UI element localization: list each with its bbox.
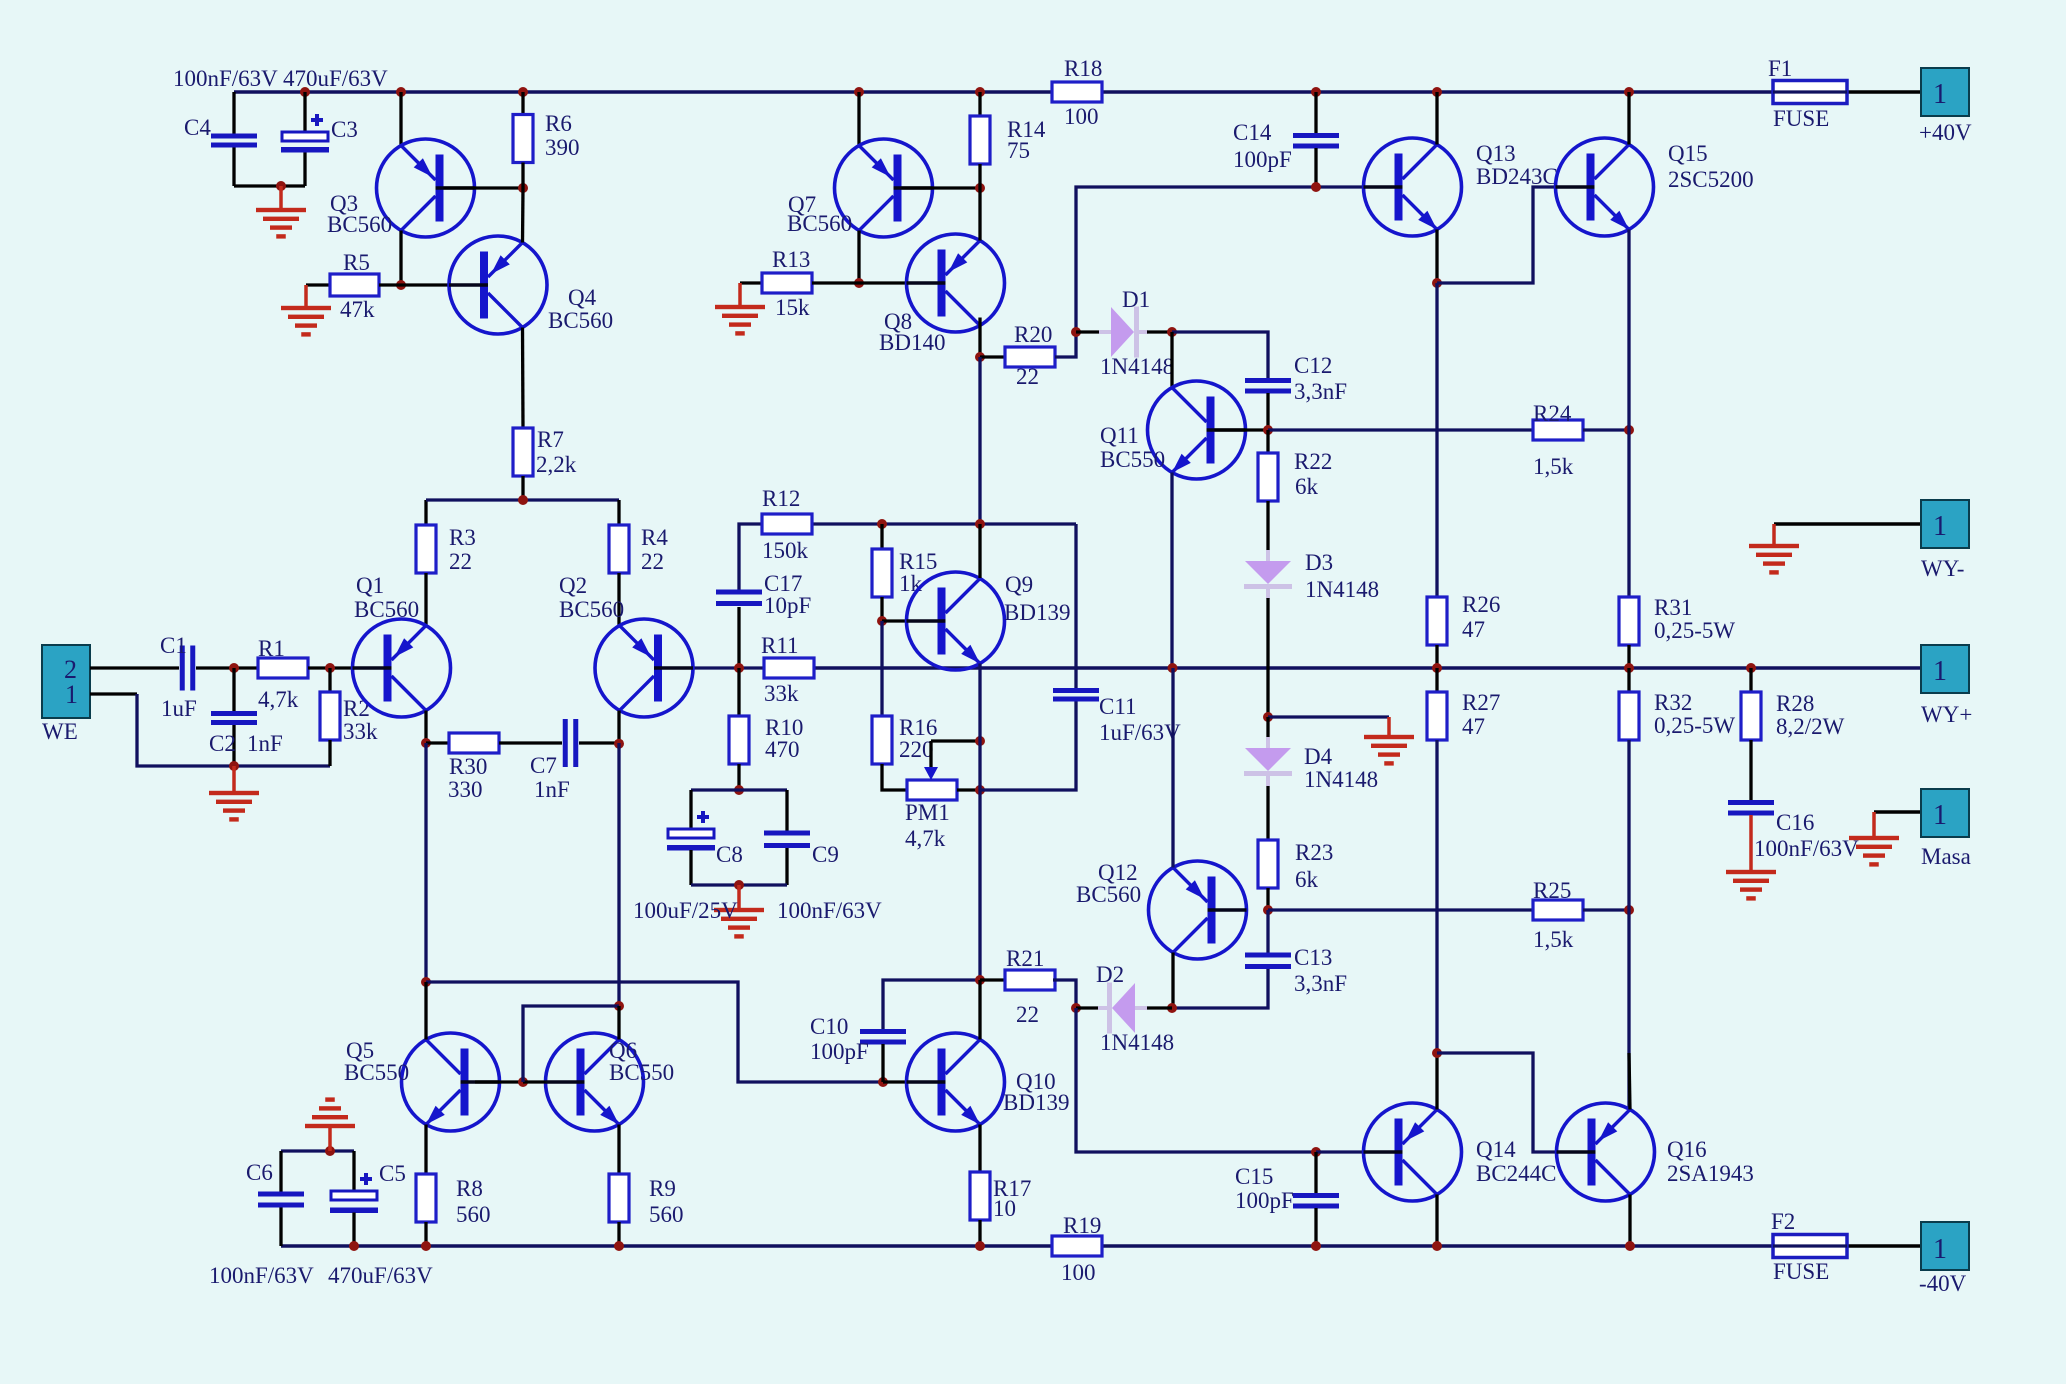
svg-text:R32: R32 (1654, 690, 1692, 715)
svg-text:R19: R19 (1063, 1213, 1101, 1238)
svg-text:220: 220 (899, 737, 934, 762)
wire Q11 emitter down to output rail (1170, 473, 1173, 669)
ground stem below C2 (232, 766, 236, 793)
svg-text:100: 100 (1061, 1260, 1096, 1285)
resistor R3 (416, 525, 436, 573)
ground below C8/C9 (714, 908, 764, 939)
diode D3 1N4148 (1244, 550, 1292, 599)
resistor R28 (1741, 692, 1761, 740)
wire C3 top stub (303, 92, 306, 132)
svg-text:R30: R30 (449, 754, 487, 779)
potentiometer PM1 body (907, 780, 957, 800)
wire C15 bottom stub (1314, 1208, 1317, 1246)
transistor Q4 (449, 236, 547, 334)
svg-text:F1: F1 (1768, 56, 1792, 81)
wire C5/C6 top tie (281, 1149, 354, 1152)
capacitor C17 (716, 590, 762, 607)
resistor R9 (609, 1174, 629, 1222)
wire C11 bottom run (980, 701, 1076, 790)
svg-text:WE: WE (42, 719, 78, 744)
transistor Q15 (1556, 138, 1654, 236)
wire R21 to D2 (1053, 980, 1076, 1008)
wire Q4 emitter stub (521, 188, 525, 243)
wire Q13 base feed riser (1076, 187, 1364, 332)
capacitor C2 (211, 711, 257, 725)
resistor R20 (1005, 347, 1055, 367)
svg-text:33k: 33k (764, 681, 799, 706)
transistor Q12 (1149, 861, 1247, 959)
svg-text:1: 1 (1933, 656, 1947, 687)
wire R12 row (812, 522, 1076, 525)
svg-text:C10: C10 (810, 1014, 848, 1039)
wire C9 top stub (785, 790, 788, 831)
wire C8 top stub (689, 790, 692, 829)
wire Q1 collector down to Q5 (424, 743, 427, 982)
transistor Q5 (402, 1033, 500, 1131)
transistor Q1 (353, 619, 451, 717)
resistor R23 (1258, 840, 1278, 888)
svg-text:Q2: Q2 (559, 573, 587, 598)
wire R31 bottom stub (1627, 645, 1630, 668)
wire Q2 collector stub (617, 711, 620, 744)
wire Q9 base lead (882, 619, 907, 622)
node C5 rail junction (349, 1241, 359, 1251)
capacitor C9 (764, 831, 810, 849)
svg-text:Q11: Q11 (1100, 423, 1139, 448)
connector Masa terminal (1921, 789, 1969, 837)
wire base tie to Q6 collector (523, 1006, 619, 1082)
svg-text:FUSE: FUSE (1773, 1259, 1829, 1284)
ground stem below C3/C4 (279, 186, 283, 210)
resistor R15 (872, 549, 892, 597)
node D2 cathode junction (1167, 1003, 1177, 1013)
wire R3 to Q1 emitter (424, 573, 427, 626)
node C8/C9 top junction (734, 785, 744, 795)
svg-text:BC560: BC560 (354, 597, 419, 622)
transistor Q11 (1148, 381, 1246, 479)
resistor R31 (1619, 597, 1639, 645)
capacitor C14 (1293, 133, 1339, 149)
wire C2 to ground run (232, 725, 235, 766)
svg-text:Q15: Q15 (1668, 141, 1708, 166)
wire C9 bottom stub (785, 848, 788, 885)
wire C14 bottom stub (1314, 148, 1317, 187)
wire D2 cathode stub (1147, 1006, 1172, 1009)
svg-text:3,3nF: 3,3nF (1294, 971, 1347, 996)
ground stem above C5/C6 (328, 1127, 332, 1152)
wire R28 to C16 (1749, 740, 1752, 800)
wire C13 to D2 cathode (1172, 969, 1268, 1008)
svg-text:560: 560 (456, 1202, 491, 1227)
connector +40V terminal (1921, 68, 1969, 116)
wire Q8 emitter stub (978, 188, 981, 241)
node D1 anode junction (1071, 327, 1081, 337)
wire Q13 emitter column (1435, 283, 1438, 597)
svg-text:R26: R26 (1462, 592, 1500, 617)
node Q7 emitter rail junction (854, 87, 864, 97)
svg-text:Q1: Q1 (356, 573, 384, 598)
transistor Q14 (1364, 1103, 1462, 1201)
svg-text:1,5k: 1,5k (1533, 927, 1574, 952)
svg-text:33k: 33k (343, 719, 378, 744)
svg-text:6k: 6k (1295, 867, 1319, 892)
node R8 rail junction (421, 1241, 431, 1251)
wire R17 bottom stub (978, 1220, 981, 1246)
svg-text:C2: C2 (209, 731, 236, 756)
node C8/C9 ground junction (734, 880, 744, 890)
svg-text:22: 22 (1016, 364, 1039, 389)
node C3/C4 ground junction (276, 181, 286, 191)
wire Q6 emitter stub (617, 1125, 620, 1175)
wire Q16 collector stub (1628, 1195, 1631, 1247)
wire ground tee (1268, 715, 1389, 718)
wire R15 to Q9 base (880, 597, 883, 621)
resistor R25 (1533, 900, 1583, 920)
svg-text:WY+: WY+ (1921, 702, 1972, 727)
wire Q13 emitter to Q15 base (1437, 187, 1556, 283)
wire Q3 collector stub (399, 231, 402, 286)
svg-text:C3: C3 (331, 117, 358, 142)
svg-text:F2: F2 (1771, 1209, 1795, 1234)
wire C12 bottom stub (1266, 393, 1269, 430)
wire Q3 base to R6 (444, 186, 524, 189)
svg-text:R13: R13 (772, 247, 810, 272)
svg-text:D3: D3 (1305, 550, 1333, 575)
node C5/C6 ground junction (325, 1146, 335, 1156)
wire R3 top stub (424, 500, 427, 525)
node Q1/Q5 collector junction (421, 977, 431, 987)
svg-text:Q14: Q14 (1476, 1137, 1516, 1162)
node PM1 wiper junction (975, 736, 985, 746)
wire PM1 wiper to Q9 emitter line (931, 739, 980, 742)
wire R10 top stub (737, 668, 740, 716)
node C7/Q2 junction (614, 739, 624, 749)
wire R30 to C7 (499, 741, 562, 744)
resistor R7 (513, 428, 533, 476)
node Q15 collector rail junction (1624, 87, 1634, 97)
connector WY+ terminal (1921, 645, 1969, 693)
svg-text:0,25-5W: 0,25-5W (1654, 618, 1735, 643)
wire Q2 base to R11 (693, 666, 764, 669)
ground stem below R13 (738, 283, 742, 307)
wire Q13 emitter stub (1435, 230, 1438, 284)
svg-text:R18: R18 (1064, 56, 1102, 81)
svg-text:1: 1 (1933, 511, 1947, 542)
wire +40V rail right of R18 (1102, 90, 1773, 93)
svg-text:C12: C12 (1294, 353, 1332, 378)
ground stem of Masa (1872, 812, 1876, 838)
node C1/C2 junction (229, 663, 239, 673)
svg-text:15k: 15k (775, 295, 810, 320)
capacitor C6 (258, 1192, 304, 1208)
node C3 top rail junction (300, 87, 310, 97)
svg-text:+40V: +40V (1919, 120, 1972, 145)
wire -40V bottom rail (281, 1244, 1052, 1247)
svg-text:BC560: BC560 (1076, 882, 1141, 907)
wire Q7 collector stub (857, 231, 860, 284)
svg-text:47: 47 (1462, 714, 1485, 739)
wire Q15 emitter column (1627, 430, 1630, 597)
node R21/C10/Q10 junction (975, 975, 985, 985)
wire Q8 collector stub (978, 318, 981, 358)
wire R4 top stub (617, 500, 620, 525)
wire Q7 emitter stub (857, 92, 860, 146)
svg-text:1N4148: 1N4148 (1304, 767, 1378, 792)
diode D1 1N4148 (1099, 307, 1148, 358)
resistor R8 (416, 1174, 436, 1222)
transistor Q2 (595, 619, 693, 717)
wire R15 top stub (880, 524, 883, 549)
svg-text:22: 22 (449, 549, 472, 574)
wire Q10 base lead (883, 1080, 907, 1083)
node C14/Q13 base junction (1311, 182, 1321, 192)
wire R24 to Q15 emitter line (1583, 428, 1629, 431)
svg-text:4,7k: 4,7k (258, 687, 299, 712)
svg-text:1: 1 (1933, 79, 1947, 110)
wire R23 junction to C13 (1266, 910, 1269, 954)
wire R25 junction to Q16 emitter (1627, 910, 1630, 1110)
resistor R14 (970, 116, 990, 164)
wire C8/C9 bottom tie (691, 883, 787, 886)
wire C4 top stub (232, 92, 235, 134)
capacitor C5 polarized (330, 1173, 378, 1213)
node R14/Q7/Q8 junction (975, 183, 985, 193)
wire fuse F1 to +40V terminal (1847, 90, 1921, 93)
ground below R13 (715, 305, 765, 336)
node R9 rail junction (614, 1241, 624, 1251)
svg-text:R8: R8 (456, 1176, 483, 1201)
svg-text:100nF/63V: 100nF/63V (209, 1263, 314, 1288)
svg-text:Q16: Q16 (1667, 1137, 1707, 1162)
wire Q10 emitter stub (978, 1125, 981, 1173)
svg-text:C11: C11 (1099, 694, 1137, 719)
node Q3 emitter rail junction (396, 87, 406, 97)
svg-text:100nF/63V: 100nF/63V (777, 898, 882, 923)
fuse F1 (1773, 81, 1847, 104)
wire Q12 emitter up to output rail (1171, 668, 1174, 868)
resistor R27 (1427, 692, 1447, 740)
wire R32 top stub (1627, 668, 1630, 692)
wire Q11 collector stub (1170, 332, 1173, 388)
capacitor C11 (1053, 688, 1099, 702)
wire Masa terminal (1874, 810, 1921, 813)
svg-text:C7: C7 (530, 753, 557, 778)
svg-text:R4: R4 (641, 525, 668, 550)
resistor R16 (872, 716, 892, 764)
svg-text:C6: C6 (246, 1160, 273, 1185)
svg-text:1k: 1k (899, 571, 923, 596)
wire Q6 collector stub (617, 1006, 620, 1040)
wire R12 left elbow to C17 (739, 524, 762, 591)
wire tee to D4 (1266, 717, 1269, 738)
svg-text:470: 470 (765, 737, 800, 762)
wire lower feedback run (426, 982, 883, 1082)
svg-text:Q4: Q4 (568, 285, 597, 310)
wire Q14 base lead wire (1316, 1150, 1364, 1153)
node Q11/Q12 emitter rail junction (1168, 663, 1178, 673)
wire D1 anode stub (1076, 330, 1100, 333)
svg-text:R3: R3 (449, 525, 476, 550)
capacitor C1 (180, 646, 196, 691)
wire C3 bottom stub (303, 153, 306, 187)
svg-text:2SA1943: 2SA1943 (1667, 1161, 1754, 1186)
svg-text:6k: 6k (1295, 474, 1319, 499)
svg-text:D2: D2 (1096, 962, 1124, 987)
node D2 anode junction (1071, 1003, 1081, 1013)
svg-text:R7: R7 (537, 427, 564, 452)
node R7/R3/R4 junction (518, 495, 528, 505)
ground below C16 (1726, 870, 1776, 901)
ground below WY- wire (1749, 544, 1799, 575)
svg-text:2,2k: 2,2k (536, 452, 577, 477)
diode D4 1N4148 (1244, 737, 1292, 786)
capacitor C12 (1245, 378, 1291, 394)
wire R14 top stub (978, 92, 981, 116)
svg-text:1uF/63V: 1uF/63V (1099, 720, 1181, 745)
capacitor C4 (211, 134, 257, 148)
wire C15 top stub (1314, 1152, 1317, 1193)
svg-text:0,25-5W: 0,25-5W (1654, 713, 1735, 738)
wire C5 bottom stub (352, 1213, 355, 1247)
wire R16 top run (880, 621, 883, 716)
node Q14 emitter junction (1432, 1048, 1442, 1058)
node R23/Q12 base junction (1263, 905, 1273, 915)
wire R5 to Q4 base (379, 283, 449, 286)
wire R32 to R25 junction (1627, 740, 1630, 910)
node R25/Q16 junction (1624, 905, 1634, 915)
connector WE (42, 645, 90, 718)
wire R26 bottom stub (1435, 645, 1438, 668)
wire +40V top rail (234, 90, 1052, 93)
svg-text:BC560: BC560 (787, 211, 852, 236)
capacitor C3 polarized (281, 114, 329, 153)
svg-text:D4: D4 (1304, 744, 1333, 769)
wire Q11 base stub (1215, 428, 1269, 431)
wire R3/R4 top tie (426, 498, 619, 501)
wire D3 to ground tee (1266, 598, 1269, 717)
svg-text:R28: R28 (1776, 691, 1814, 716)
svg-text:R23: R23 (1295, 840, 1333, 865)
svg-text:BC560: BC560 (559, 597, 624, 622)
svg-text:R24: R24 (1533, 401, 1572, 426)
wire C10 top run (883, 980, 980, 1029)
wire R6 bottom stub (521, 163, 524, 189)
svg-text:R5: R5 (343, 250, 370, 275)
node R28/WY+ junction (1746, 663, 1756, 673)
svg-text:BC244C: BC244C (1476, 1161, 1557, 1186)
wire C3/C4 bottom tie (234, 184, 305, 187)
ground stem below C8/C9 (737, 885, 741, 910)
svg-text:22: 22 (641, 549, 664, 574)
svg-text:470uF/63V: 470uF/63V (328, 1263, 433, 1288)
svg-text:47k: 47k (340, 297, 375, 322)
svg-text:FUSE: FUSE (1773, 106, 1829, 131)
svg-text:BD139: BD139 (1003, 1090, 1069, 1115)
svg-text:100pF: 100pF (810, 1039, 869, 1064)
svg-text:150k: 150k (762, 538, 809, 563)
wire R9 bottom stub (617, 1222, 620, 1246)
node Q10 base junction (878, 1077, 888, 1087)
fuse F2 (1773, 1235, 1847, 1258)
node R20/Q8 junction (975, 352, 985, 362)
svg-text:BD139: BD139 (1004, 600, 1070, 625)
node R14 top rail junction (975, 87, 985, 97)
capacitor C10 (860, 1029, 906, 1045)
svg-text:330: 330 (448, 777, 483, 802)
node Q11 base/C12/R22 junction (1263, 425, 1273, 435)
svg-text:100nF/63V: 100nF/63V (1754, 836, 1859, 861)
svg-text:1N4148: 1N4148 (1305, 577, 1379, 602)
wire output rail WY+ (814, 666, 1921, 669)
wire Q1 collector stub (424, 711, 427, 744)
node C2 ground junction (229, 761, 239, 771)
svg-text:2SC5200: 2SC5200 (1668, 167, 1754, 192)
wire Q4 collector to R7 (521, 328, 525, 429)
node PM1/C11 junction (975, 785, 985, 795)
wire R13 left stub (740, 281, 762, 284)
svg-text:1: 1 (65, 680, 78, 709)
transistor Q3 (377, 139, 475, 237)
svg-text:470uF/63V: 470uF/63V (283, 66, 388, 91)
transistor Q8 (907, 234, 1005, 332)
wire R14 bottom stub (978, 164, 981, 188)
node Q16 collector rail junction (1625, 1241, 1635, 1251)
resistor R26 (1427, 597, 1447, 645)
wire Q5 emitter stub (424, 1125, 427, 1175)
wire -40V rail right of R19 (1102, 1244, 1773, 1247)
wire C7 to Q2 collector (579, 741, 619, 744)
node R1/R2/Q1 junction (325, 663, 335, 673)
node C15/Q14 base junction (1311, 1147, 1321, 1157)
resistor R22 (1258, 453, 1278, 501)
wire WY- terminal (1774, 522, 1921, 525)
connector WY- terminal (1921, 500, 1969, 548)
wire Q14 emitter to Q16 base (1437, 1053, 1556, 1152)
node Q9 base junction (877, 616, 887, 626)
wire R2 bottom stub (328, 740, 331, 766)
svg-text:75: 75 (1007, 138, 1030, 163)
node R26/R27 rail junction (1432, 663, 1442, 673)
ground stem of WY- (1772, 524, 1776, 546)
wire Q15 collector stub (1627, 92, 1630, 145)
node C14 top rail junction (1311, 87, 1321, 97)
wire R6 top stub (521, 92, 524, 115)
wire R20 to D1 anode riser (1055, 332, 1076, 357)
resistor R11 (764, 658, 814, 678)
wire R7 bottom stub (521, 476, 524, 500)
resistor R19 (1052, 1236, 1102, 1256)
wire C16 to ground (1749, 815, 1753, 872)
wire D1 to C12 top (1172, 332, 1268, 378)
transistor Q9 (907, 572, 1005, 670)
svg-text:WY-: WY- (1921, 556, 1964, 581)
svg-text:1: 1 (1933, 800, 1947, 831)
wire WE pin1 to ground run (137, 694, 330, 766)
ground below C3/C4 (256, 208, 306, 239)
node Q9 collector junction (975, 519, 985, 529)
node Q6 collector junction (614, 1001, 624, 1011)
svg-text:BC560: BC560 (548, 308, 613, 333)
resistor R4 (609, 525, 629, 573)
node R5/Q3/Q4 junction (396, 280, 406, 290)
svg-text:Q9: Q9 (1005, 572, 1033, 597)
transistor Q10 (907, 1033, 1005, 1131)
node D3/D4 ground junction (1263, 712, 1273, 722)
svg-text:C5: C5 (379, 1161, 406, 1186)
svg-text:R27: R27 (1462, 690, 1500, 715)
wire Q13 collector stub (1435, 92, 1438, 145)
svg-text:R6: R6 (545, 111, 572, 136)
